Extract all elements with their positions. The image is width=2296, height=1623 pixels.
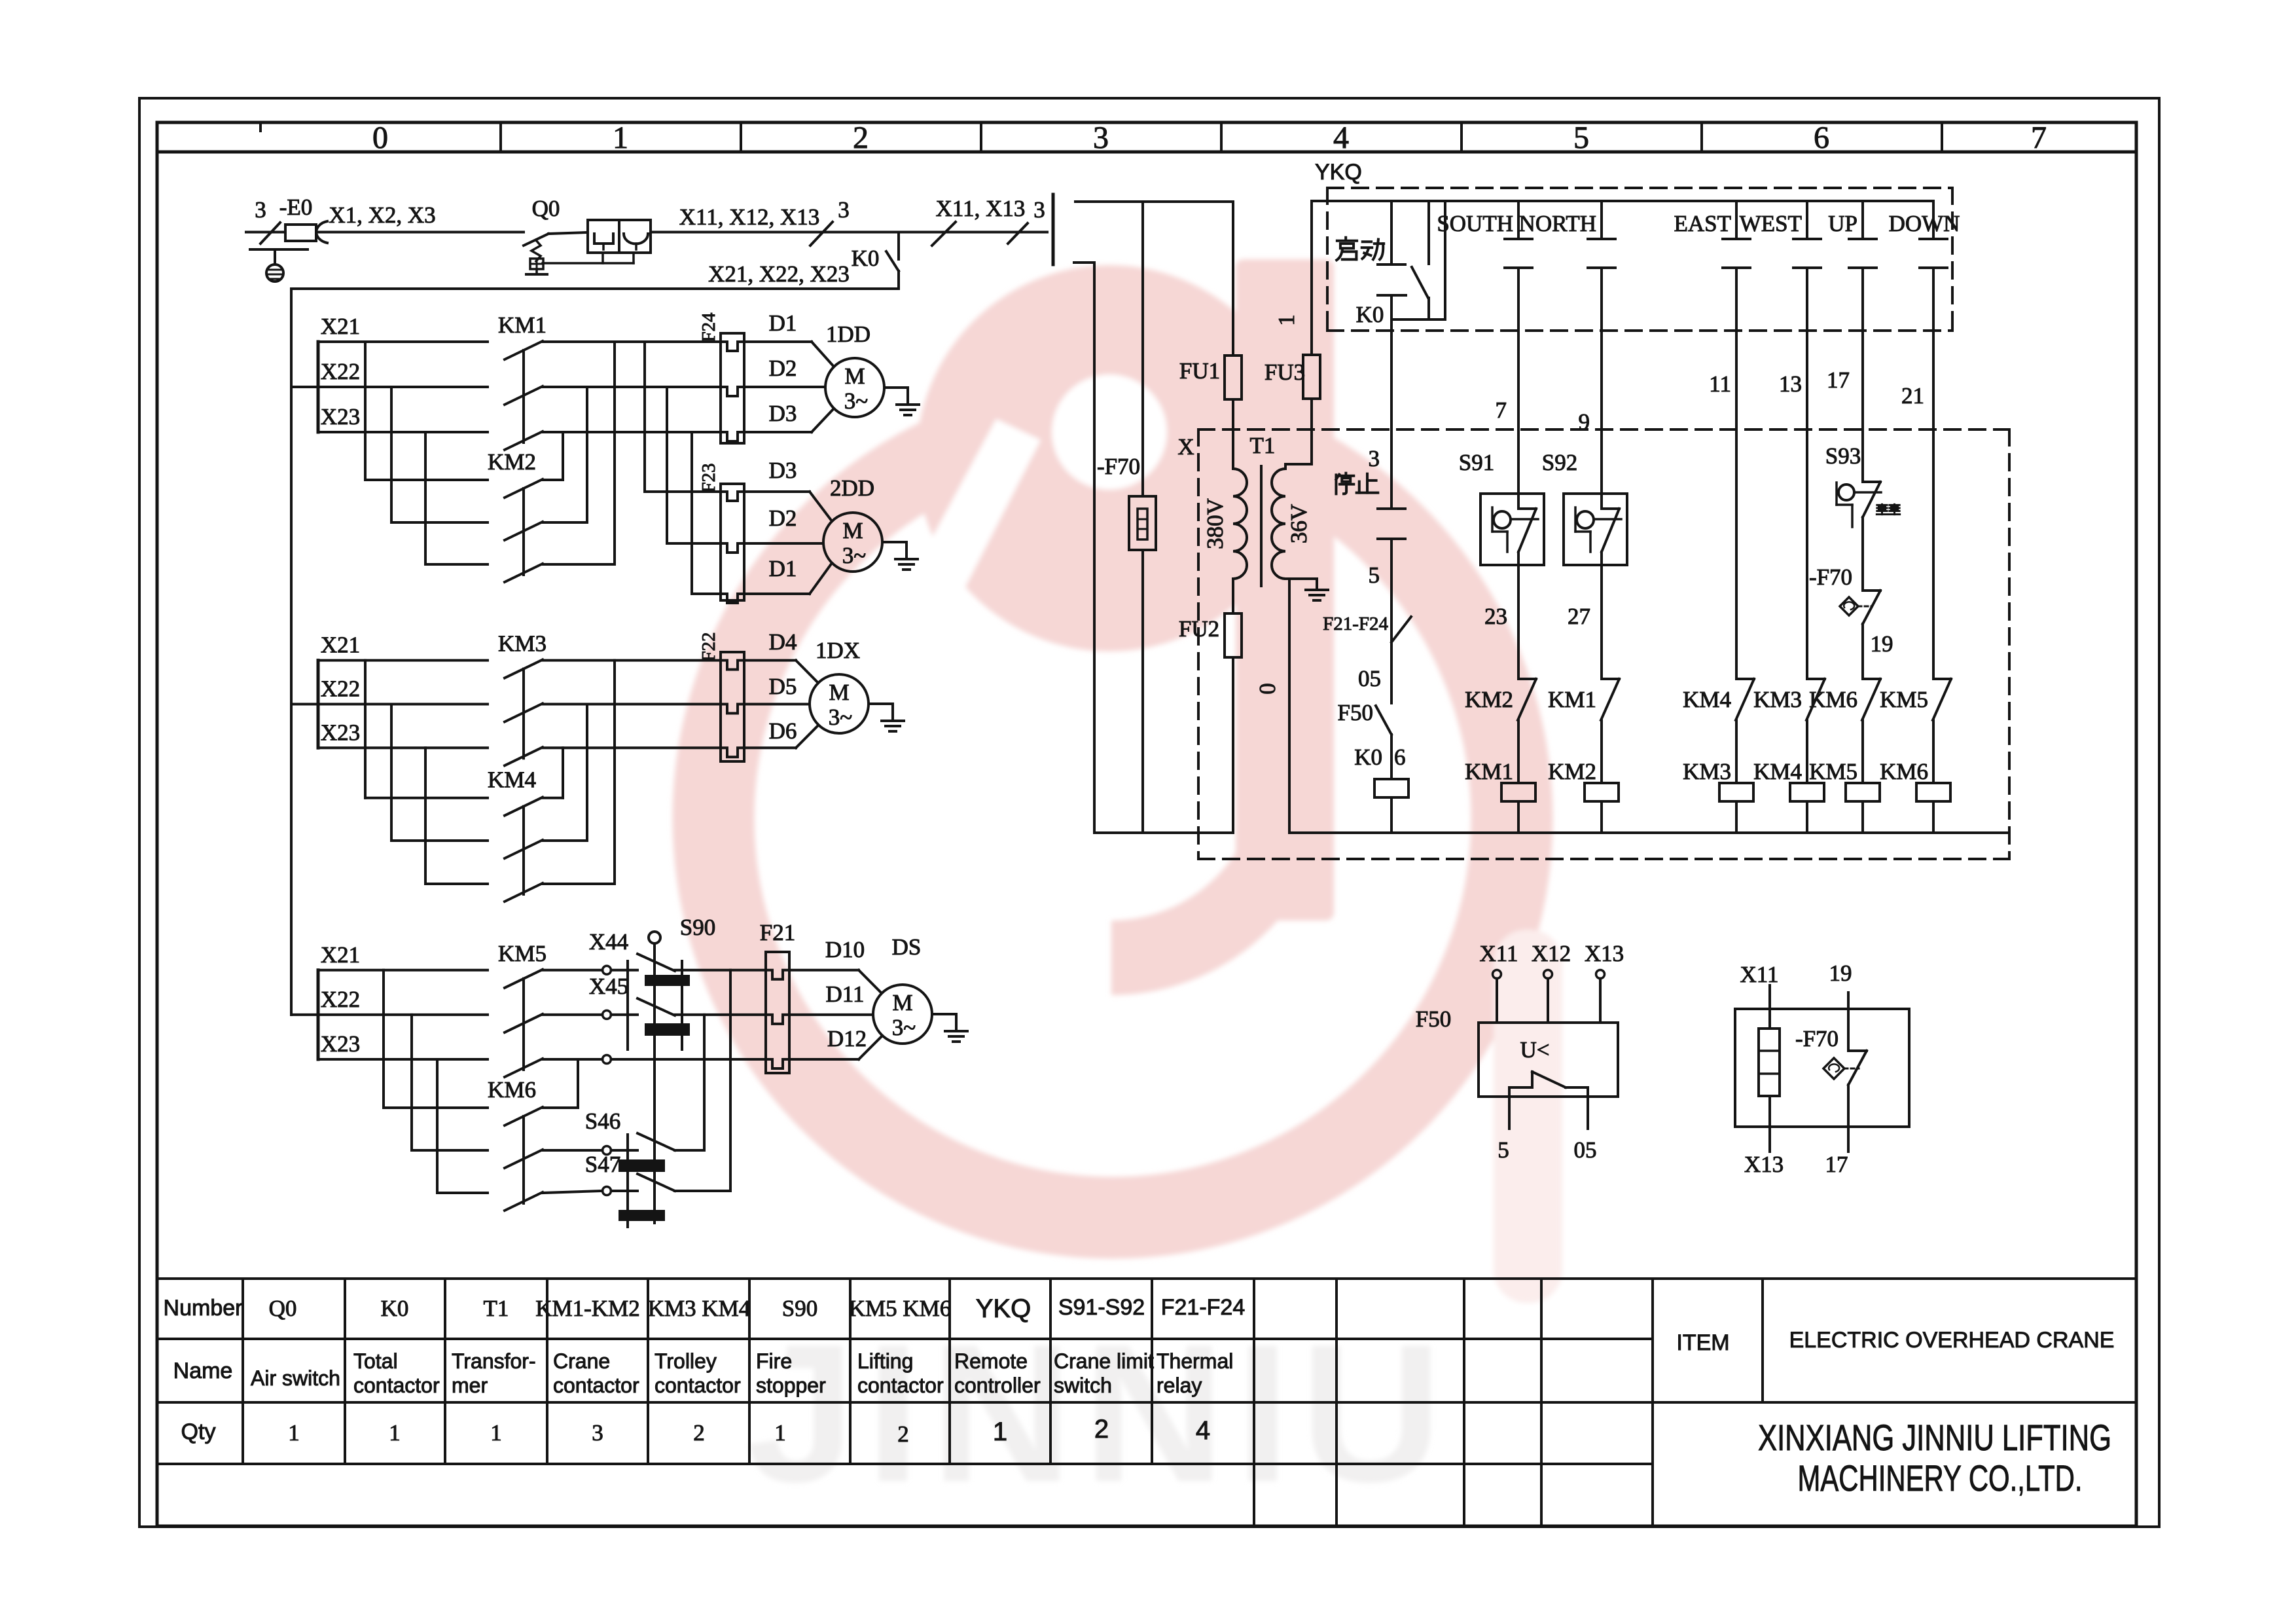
contact K0 main	[897, 232, 900, 260]
svg-text:S47: S47	[585, 1152, 620, 1177]
header divider 4	[1220, 122, 1223, 152]
motor DS earth	[932, 1013, 956, 1015]
svg-text:contactor: contactor	[353, 1374, 440, 1397]
header divider 2	[740, 122, 742, 152]
svg-text:9: 9	[1579, 409, 1590, 435]
motor 1DD earth	[884, 386, 908, 389]
svg-text:-F70: -F70	[1809, 564, 1852, 590]
svg-text:X22: X22	[321, 676, 360, 702]
svg-text:Thermal: Thermal	[1157, 1349, 1233, 1373]
svg-text:KM6: KM6	[488, 1077, 536, 1103]
svg-text:Qty: Qty	[181, 1419, 216, 1444]
svg-text:Crane limit: Crane limit	[1054, 1349, 1154, 1373]
svg-text:X1, X2, X3: X1, X2, X3	[329, 202, 435, 228]
svg-text:1DD: 1DD	[826, 321, 870, 347]
svg-text:S93: S93	[1825, 443, 1861, 469]
header tick	[259, 122, 262, 131]
control common rail 0	[1289, 831, 2008, 834]
motor 1DX	[810, 674, 869, 733]
svg-text:D3: D3	[769, 458, 797, 483]
svg-text:1: 1	[1274, 314, 1299, 326]
terminal bar X21 X22 X23	[317, 661, 320, 748]
watermark logo disc	[916, 265, 1302, 651]
wire D12	[611, 1058, 766, 1061]
svg-text:0: 0	[372, 120, 388, 155]
svg-text:Q0: Q0	[532, 196, 560, 221]
svg-text:1: 1	[613, 120, 628, 155]
wire D4 feed	[543, 659, 721, 662]
svg-text:KM3 KM4: KM3 KM4	[648, 1296, 751, 1321]
svg-text:relay: relay	[1157, 1374, 1202, 1397]
wire 308 to FU1	[1075, 200, 1233, 203]
svg-text:36V: 36V	[1286, 504, 1312, 543]
svg-text:3: 3	[1369, 446, 1380, 471]
svg-text:KM5: KM5	[498, 941, 547, 966]
svg-text:S90: S90	[680, 915, 715, 940]
motor 2DD	[823, 513, 882, 572]
thermal relay F22	[721, 652, 744, 761]
svg-text:1: 1	[389, 1420, 401, 1446]
svg-text:U<: U<	[1520, 1037, 1549, 1063]
svg-text:23: 23	[1484, 604, 1507, 629]
fuse FU3	[1310, 399, 1313, 464]
svg-text:D5: D5	[769, 674, 797, 699]
svg-text:KM1: KM1	[1465, 759, 1513, 784]
svg-text:UP: UP	[1828, 211, 1857, 236]
svg-text:6: 6	[1814, 120, 1829, 155]
wire X22	[291, 703, 488, 706]
tap wire 2	[390, 704, 393, 841]
motor 1DD	[825, 358, 884, 417]
svg-text:3~: 3~	[842, 543, 866, 568]
svg-text:X45: X45	[589, 974, 628, 999]
cross wire KM2 pole1 to D3	[543, 479, 563, 481]
main phase bus	[290, 289, 293, 1015]
svg-text:KM2: KM2	[488, 449, 536, 475]
branch to F23 top	[643, 342, 646, 492]
riser S47 to D10	[675, 1190, 730, 1192]
svg-text:Name: Name	[173, 1359, 233, 1383]
wire X23	[318, 746, 488, 749]
svg-text:KM3: KM3	[498, 631, 547, 657]
svg-text:D2: D2	[769, 505, 797, 531]
svg-text:3~: 3~	[892, 1015, 916, 1040]
wire X22	[291, 1013, 488, 1016]
svg-text:F21: F21	[760, 920, 795, 945]
svg-text:X13: X13	[1744, 1152, 1784, 1177]
svg-text:KM5 KM6: KM5 KM6	[849, 1296, 952, 1321]
svg-text:F50: F50	[1338, 700, 1373, 725]
svg-text:D1: D1	[769, 310, 797, 336]
svg-text:K0: K0	[381, 1296, 409, 1321]
svg-text:KM6: KM6	[1809, 687, 1857, 712]
contact F50 output	[1508, 1087, 1511, 1129]
svg-text:Transfor-: Transfor-	[452, 1349, 536, 1373]
svg-text:5: 5	[1369, 562, 1380, 588]
svg-text:21: 21	[1901, 383, 1924, 409]
svg-text:19: 19	[1829, 960, 1852, 986]
header divider 7	[1941, 122, 1943, 152]
wire KM5 pole1 to X44	[543, 969, 603, 972]
svg-text:S46: S46	[585, 1108, 620, 1134]
svg-text:FU3: FU3	[1265, 359, 1305, 385]
cross wire KM2 pole3 to D1	[543, 563, 615, 566]
svg-text:F24: F24	[698, 312, 719, 342]
button bus riser	[1444, 201, 1446, 319]
parts table grid	[158, 1277, 2136, 1280]
svg-text:2: 2	[693, 1420, 705, 1446]
svg-text:ELECTRIC OVERHEAD CRANE: ELECTRIC OVERHEAD CRANE	[1789, 1328, 2115, 1353]
svg-text:1: 1	[774, 1420, 786, 1446]
terminal bar X21 X22 X23	[317, 342, 320, 432]
svg-text:DS: DS	[892, 934, 922, 960]
svg-text:1: 1	[490, 1420, 502, 1446]
svg-text:Fire: Fire	[756, 1349, 792, 1373]
svg-text:1: 1	[993, 1417, 1007, 1446]
svg-text:stopper: stopper	[756, 1374, 826, 1397]
svg-text:2: 2	[897, 1421, 909, 1447]
svg-text:11: 11	[1709, 371, 1731, 397]
svg-text:7: 7	[2031, 120, 2047, 155]
svg-text:KM2: KM2	[1465, 687, 1513, 712]
svg-text:D4: D4	[769, 629, 797, 655]
undervoltage release box	[588, 220, 619, 253]
svg-text:contactor: contactor	[655, 1374, 741, 1397]
svg-text:K0: K0	[1356, 302, 1384, 327]
wire 1	[1310, 201, 1313, 355]
svg-text:D10: D10	[825, 937, 865, 962]
svg-text:-F70: -F70	[1097, 454, 1140, 479]
header divider 3	[980, 122, 982, 152]
svg-text:ITEM: ITEM	[1676, 1330, 1729, 1355]
wire D11	[675, 1013, 766, 1016]
wire KM6 pole2 to S46	[543, 1149, 603, 1152]
svg-text:Air switch: Air switch	[251, 1366, 340, 1390]
watermark logo hole	[1052, 374, 1167, 490]
wire X21	[318, 969, 488, 972]
svg-text:Total: Total	[353, 1349, 398, 1373]
svg-text:X21, X22, X23: X21, X22, X23	[708, 261, 850, 287]
wire X1 X2 X3	[316, 231, 524, 234]
wire X21	[318, 659, 488, 662]
svg-text:M: M	[844, 363, 865, 389]
svg-text:K0: K0	[852, 246, 880, 271]
svg-text:D1: D1	[769, 556, 797, 581]
secondary bottom wire	[1285, 577, 1317, 580]
fuse -E0	[260, 223, 280, 244]
svg-text:X21: X21	[321, 314, 360, 339]
tap wire 3	[424, 432, 427, 564]
tap wire 2	[410, 1015, 413, 1150]
wire KM5 pole2 to X45	[543, 1013, 603, 1016]
svg-text:YKQ: YKQ	[976, 1294, 1031, 1323]
svg-text:KM1: KM1	[498, 312, 547, 338]
svg-text:Trolley: Trolley	[655, 1349, 717, 1373]
earth electrode	[250, 248, 308, 251]
cross wire KM4 pole3 to D4	[543, 883, 615, 885]
svg-text:MACHINERY CO.,LTD.: MACHINERY CO.,LTD.	[1798, 1457, 2083, 1499]
header divider 5	[1460, 122, 1463, 152]
wire X11 X13 to terminal	[899, 231, 1047, 234]
wire X23	[318, 1058, 488, 1061]
motor DS	[873, 985, 932, 1044]
svg-text:F21-F24: F21-F24	[1323, 613, 1388, 634]
svg-text:switch: switch	[1054, 1374, 1112, 1397]
svg-text:3~: 3~	[844, 388, 868, 414]
wire D6 feed	[543, 746, 721, 749]
tap wire 3	[436, 1059, 439, 1193]
svg-text:X23: X23	[321, 720, 360, 745]
svg-text:KM5: KM5	[1880, 687, 1928, 712]
svg-text:F23: F23	[698, 463, 719, 492]
svg-text:3: 3	[592, 1420, 603, 1446]
outer border frame	[139, 98, 2159, 1527]
svg-text:-F70: -F70	[1795, 1026, 1839, 1051]
svg-text:KM4: KM4	[1683, 687, 1731, 712]
svg-text:X22: X22	[321, 987, 360, 1012]
svg-text:D2: D2	[769, 356, 797, 381]
svg-text:T1: T1	[484, 1296, 509, 1321]
svg-text:KM1-KM2: KM1-KM2	[535, 1296, 639, 1321]
svg-text:1DX: 1DX	[816, 638, 860, 663]
tap wire 2	[390, 387, 393, 522]
thermal relay F24	[721, 333, 744, 443]
svg-text:X21: X21	[321, 942, 360, 968]
svg-text:KM6: KM6	[1880, 759, 1928, 784]
svg-text:17: 17	[1825, 1152, 1848, 1177]
svg-text:Remote: Remote	[954, 1349, 1028, 1373]
svg-text:JINNIU: JINNIU	[746, 1303, 1453, 1523]
svg-text:EAST: EAST	[1674, 211, 1732, 236]
cross wire KM2 pole2 to D2	[543, 521, 587, 524]
fuse FU2	[1232, 579, 1234, 613]
svg-text:-E0: -E0	[279, 194, 313, 220]
svg-text:X11, X12, X13: X11, X12, X13	[679, 204, 820, 230]
svg-text:controller: controller	[954, 1374, 1041, 1397]
svg-text:WEST: WEST	[1740, 211, 1802, 236]
svg-text:X11: X11	[1740, 962, 1779, 987]
overcurrent release box	[619, 220, 651, 253]
svg-text:3: 3	[1093, 120, 1109, 155]
svg-text:S91-S92: S91-S92	[1058, 1295, 1145, 1320]
svg-text:2: 2	[853, 120, 869, 155]
svg-text:KM4: KM4	[1753, 759, 1802, 784]
svg-text:KM5: KM5	[1809, 759, 1857, 784]
wire X21 X22 X23 return	[291, 287, 899, 290]
header band line	[157, 151, 2136, 154]
svg-text:13: 13	[1779, 371, 1802, 397]
svg-text:Lifting: Lifting	[857, 1349, 913, 1373]
svg-text:S90: S90	[782, 1296, 817, 1321]
wire X21	[318, 340, 488, 343]
wire X23	[318, 431, 488, 433]
svg-text:Crane: Crane	[553, 1349, 610, 1373]
overcurrent relay -F70 branch	[1141, 202, 1144, 496]
svg-text:X11, X13: X11, X13	[936, 196, 1026, 221]
svg-text:Q0: Q0	[269, 1296, 297, 1321]
svg-text:1: 1	[288, 1420, 300, 1446]
svg-text:K0: K0	[1354, 744, 1382, 770]
svg-text:2DD: 2DD	[830, 475, 874, 501]
branch to F23 bottom	[691, 432, 693, 594]
svg-text:S92: S92	[1542, 450, 1577, 475]
svg-text:KM1: KM1	[1548, 687, 1596, 712]
cross wire KM4 pole1 to D6	[543, 797, 563, 799]
thermal relay F23	[721, 484, 744, 600]
svg-text:contactor: contactor	[553, 1374, 639, 1397]
svg-text:X13: X13	[1585, 941, 1624, 966]
svg-text:3~: 3~	[829, 704, 852, 730]
svg-text:M: M	[842, 518, 863, 543]
svg-text:X12: X12	[1532, 941, 1571, 966]
cross wire KM6 pole1 to D12	[543, 1106, 578, 1109]
tap wire 1	[364, 661, 367, 798]
svg-text:XINXIANG JINNIU LIFTING: XINXIANG JINNIU LIFTING	[1758, 1417, 2111, 1458]
wire D3 feed	[543, 431, 721, 433]
svg-text:5: 5	[1573, 120, 1589, 155]
svg-text:M: M	[892, 990, 912, 1015]
svg-text:4: 4	[1333, 120, 1349, 155]
svg-text:2: 2	[1094, 1415, 1109, 1444]
svg-text:T1: T1	[1250, 433, 1276, 458]
inner border frame	[157, 122, 2136, 1526]
svg-text:X44: X44	[589, 929, 628, 955]
watermark logo bar	[1236, 259, 1334, 921]
svg-text:contactor: contactor	[857, 1374, 944, 1397]
wire 401 return	[1074, 261, 1094, 264]
svg-text:KM2: KM2	[1548, 759, 1596, 784]
terminal D12 wire circle	[603, 1055, 611, 1064]
incoming supply wire	[246, 231, 285, 234]
tap wire 3	[424, 748, 427, 884]
slash 3 conductors	[810, 222, 833, 246]
svg-text:X11: X11	[1480, 941, 1518, 966]
wire D1 feed	[543, 340, 721, 343]
svg-text:05: 05	[1574, 1137, 1597, 1163]
cross wire KM4 pole2 to D5	[543, 839, 587, 842]
element X11-X13	[1768, 985, 1771, 1029]
svg-text:D11: D11	[826, 981, 865, 1007]
terminal bar X21 X22 X23	[317, 970, 320, 1059]
svg-text:D3: D3	[769, 401, 797, 426]
svg-text:NORTH: NORTH	[1519, 211, 1596, 236]
svg-text:7: 7	[1496, 397, 1507, 423]
svg-text:5: 5	[1498, 1137, 1509, 1163]
header divider 1	[499, 122, 502, 152]
wire 0	[1288, 579, 1291, 833]
riser S46 to D11	[675, 1149, 704, 1152]
wire X22	[291, 386, 488, 388]
svg-text:3: 3	[1033, 197, 1045, 223]
svg-text:KM3: KM3	[1683, 759, 1731, 784]
watermark logo ring	[713, 419, 1512, 1218]
thermal relay F21	[766, 952, 789, 1073]
svg-text:X23: X23	[321, 404, 360, 429]
svg-text:19: 19	[1871, 631, 1893, 657]
transformer earth	[1316, 579, 1318, 590]
wire KM6 pole3 to S47	[543, 1191, 603, 1193]
tap wire 1	[382, 970, 385, 1108]
svg-text:Number: Number	[164, 1296, 243, 1321]
svg-text:KM3: KM3	[1753, 687, 1802, 712]
secondary top wire	[1284, 464, 1287, 469]
motor 2DD earth	[882, 541, 906, 543]
wire D10	[675, 969, 766, 972]
svg-text:X: X	[1177, 434, 1194, 460]
tap wire 1	[364, 342, 367, 480]
svg-text:X23: X23	[321, 1031, 360, 1057]
svg-text:KM4: KM4	[488, 767, 536, 793]
header divider 6	[1700, 122, 1703, 152]
svg-text:D6: D6	[769, 718, 797, 744]
svg-text:3: 3	[255, 197, 266, 223]
svg-text:F22: F22	[698, 632, 719, 661]
svg-text:X21: X21	[321, 632, 360, 658]
watermark right ring	[1494, 930, 1562, 1303]
wire 1 into YKQ	[1312, 200, 1933, 202]
svg-text:380V: 380V	[1202, 498, 1228, 549]
wire D5 feed	[543, 703, 721, 706]
svg-text:F50: F50	[1416, 1006, 1451, 1032]
svg-text:FU1: FU1	[1179, 358, 1220, 384]
branch to F23 middle	[666, 387, 668, 543]
primary bottom wire	[1094, 831, 1233, 834]
motor 1DX earth	[869, 702, 893, 705]
svg-text:3: 3	[838, 197, 850, 223]
svg-text:6: 6	[1394, 744, 1406, 770]
start button	[1344, 238, 1347, 240]
svg-text:F21-F24: F21-F24	[1161, 1295, 1246, 1320]
svg-text:4: 4	[1196, 1416, 1210, 1445]
svg-text:DOWN: DOWN	[1889, 211, 1960, 236]
svg-text:D12: D12	[827, 1026, 867, 1051]
svg-text:27: 27	[1568, 604, 1590, 629]
svg-text:17: 17	[1827, 367, 1850, 393]
svg-text:X22: X22	[321, 359, 360, 384]
svg-text:0: 0	[1255, 683, 1280, 695]
svg-text:S91: S91	[1459, 450, 1494, 475]
svg-text:mer: mer	[452, 1374, 488, 1397]
svg-text:05: 05	[1358, 666, 1381, 691]
terminal bar X11 X13	[1052, 194, 1055, 264]
svg-text:YKQ: YKQ	[1315, 160, 1362, 185]
wire D2 feed	[543, 386, 721, 388]
svg-text:M: M	[829, 680, 849, 705]
svg-text:SOUTH: SOUTH	[1437, 211, 1513, 236]
wire X11 X12 X13	[548, 232, 588, 234]
wire KM5 pole3	[543, 1058, 603, 1061]
